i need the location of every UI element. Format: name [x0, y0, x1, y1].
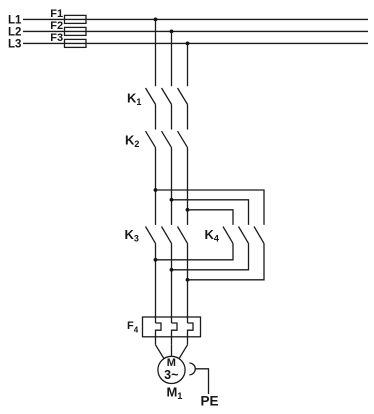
- wire motor lead W: [179, 345, 187, 359]
- wire bridge phase A to K4 pole 3: [156, 190, 265, 225]
- junction bridge C top: [186, 208, 190, 212]
- wire K2 to K3 pole 1: [155, 148, 157, 225]
- wire rail L2: [23, 30, 368, 32]
- contact K3 pole 1: [146, 227, 156, 244]
- wire bridge phase B to K4 pole 2: [172, 200, 249, 225]
- svg-text:L3: L3: [8, 39, 21, 51]
- wire K3 to F4 pole 3: [187, 243, 189, 323]
- wire K4 pole 1 to phase A: [156, 243, 234, 259]
- svg-text:F2: F2: [50, 20, 63, 32]
- fuse F1: [65, 15, 87, 23]
- contact K1 pole 2: [162, 88, 172, 104]
- svg-text:L1: L1: [8, 15, 22, 27]
- junction bridge C bottom: [186, 278, 190, 282]
- wire bridge phase C to K4 pole 1: [188, 210, 234, 225]
- overload element pole 2: [172, 323, 178, 345]
- wire phase C drop: [187, 43, 189, 86]
- wire motor lead U: [156, 345, 164, 359]
- wire K1 to K2 pole 3: [187, 104, 189, 129]
- contact K1 pole 1: [146, 88, 156, 104]
- junction bridge A top: [154, 188, 158, 192]
- contact K2 pole 2: [162, 131, 172, 148]
- contact K3 pole 3: [178, 227, 188, 244]
- wire K4 pole 3 to phase C: [188, 243, 265, 279]
- wire PE: [195, 369, 208, 394]
- motor M1: [158, 356, 185, 383]
- overload relay F4 box: [143, 317, 201, 337]
- wire motor lead V: [171, 345, 173, 357]
- junction L2 tap: [170, 30, 174, 34]
- junction L3 tap: [186, 42, 190, 46]
- overload element pole 1: [156, 323, 162, 345]
- contact K1 pole 3: [178, 88, 188, 104]
- svg-text:L2: L2: [8, 27, 21, 39]
- junction L1 tap: [154, 18, 158, 22]
- wire K4 pole 2 to phase B: [172, 243, 249, 269]
- wire rail L3: [23, 42, 368, 44]
- svg-text:F1: F1: [50, 8, 63, 20]
- wire phase B drop: [171, 31, 173, 86]
- wire phase A drop: [155, 19, 157, 86]
- contact K4 pole 3: [254, 227, 264, 244]
- contact K4 pole 1: [223, 227, 233, 244]
- overload element pole 3: [188, 323, 194, 345]
- wire K3 to F4 pole 1: [155, 243, 157, 323]
- svg-text:F3: F3: [50, 32, 63, 44]
- contact K2 pole 1: [146, 131, 156, 148]
- wire K2 to K3 pole 3: [187, 148, 189, 225]
- wire rail L1: [23, 18, 368, 20]
- wire K1 to K2 pole 2: [171, 104, 173, 129]
- fuse F2: [65, 27, 87, 35]
- contact K4 pole 2: [239, 227, 249, 244]
- wire K2 to K3 pole 2: [171, 148, 173, 225]
- junction bridge B bottom: [170, 268, 174, 272]
- contact K3 pole 2: [162, 227, 172, 244]
- junction bridge A bottom: [154, 258, 158, 262]
- junction bridge B top: [170, 198, 174, 202]
- fuse F3: [65, 39, 87, 47]
- wire K1 to K2 pole 1: [155, 104, 157, 129]
- svg-text:3~: 3~: [164, 368, 178, 382]
- PE terminal arc: [189, 363, 195, 375]
- wire K3 to F4 pole 2: [171, 243, 173, 323]
- contact K2 pole 3: [178, 131, 188, 148]
- svg-text:PE: PE: [201, 394, 219, 409]
